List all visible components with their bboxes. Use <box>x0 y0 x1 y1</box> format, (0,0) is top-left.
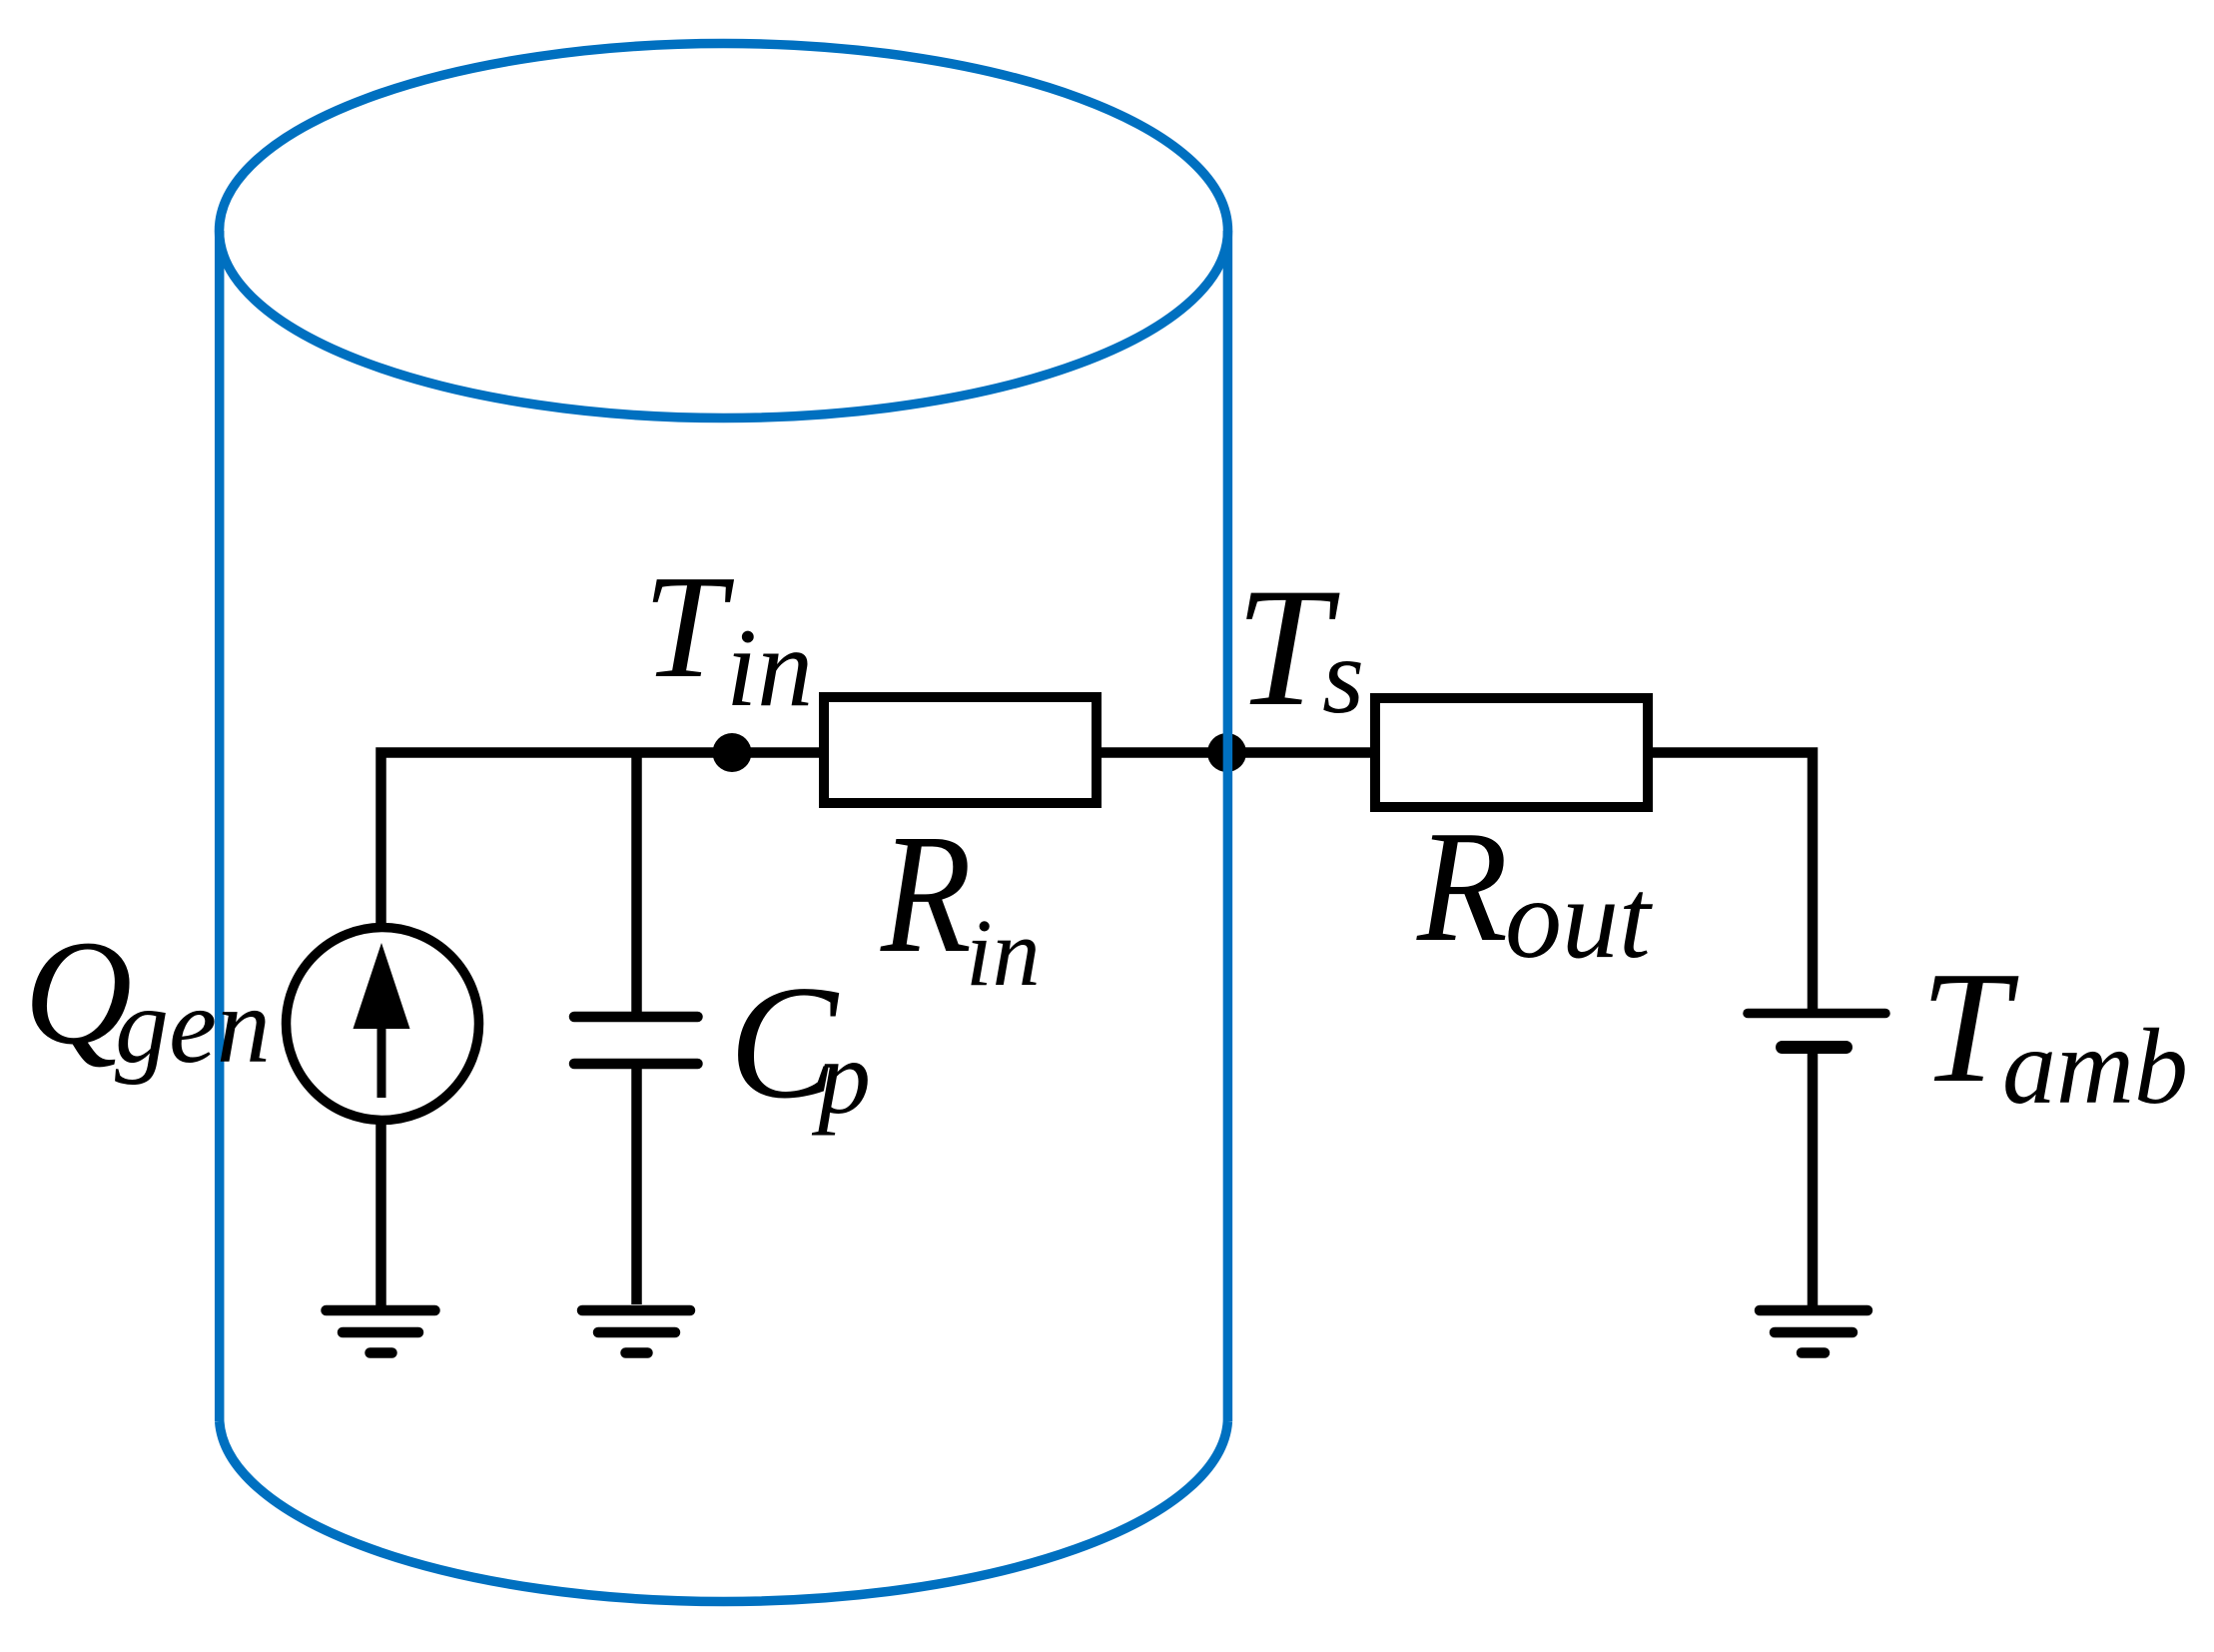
svg-text:amb: amb <box>2002 1008 2188 1127</box>
node Tin (junction dot) <box>713 733 752 772</box>
current source Qgen <box>287 928 479 1121</box>
svg-text:R: R <box>880 798 972 988</box>
voltage source Tamb (battery cell symbol) <box>1748 1014 1885 1048</box>
wire: capacitor top lead <box>631 753 642 1013</box>
label Qgen <box>24 910 271 1086</box>
svg-text:out: out <box>1505 855 1653 982</box>
svg-text:in: in <box>726 606 813 730</box>
ground (below Cp) <box>582 1310 690 1353</box>
svg-text:T: T <box>643 545 735 709</box>
label Cp <box>729 953 871 1136</box>
node Ts (junction dot) <box>1207 733 1246 772</box>
resistor Rin <box>824 697 1097 803</box>
resistor Rout <box>1375 698 1648 807</box>
svg-text:R: R <box>1416 798 1508 975</box>
label Rin <box>880 798 1041 1006</box>
label Tin <box>643 545 813 730</box>
label Rout <box>1416 798 1653 982</box>
label Ts <box>1235 553 1364 741</box>
wire: Rin to Ts node to Rout <box>1097 747 1375 758</box>
ground (below Tamb) <box>1760 1310 1867 1353</box>
capacitor Cp <box>574 1017 698 1064</box>
wire: Rout to Tamb source <box>1648 753 1813 1014</box>
wire: Tamb source to ground <box>1808 1048 1819 1308</box>
wire: capacitor bottom lead <box>631 1069 642 1304</box>
label Tamb <box>1920 938 2188 1127</box>
wire: Qgen top to Tin node to Rin <box>381 753 825 928</box>
wire: Qgen bottom lead <box>375 1121 386 1310</box>
battery cell body (blue cylinder) <box>220 44 1228 1602</box>
svg-text:p: p <box>811 1019 871 1136</box>
ground (below Qgen) <box>327 1310 435 1353</box>
svg-text:in: in <box>966 899 1041 1006</box>
svg-text:s: s <box>1322 617 1364 736</box>
svg-text:gen: gen <box>115 967 271 1086</box>
